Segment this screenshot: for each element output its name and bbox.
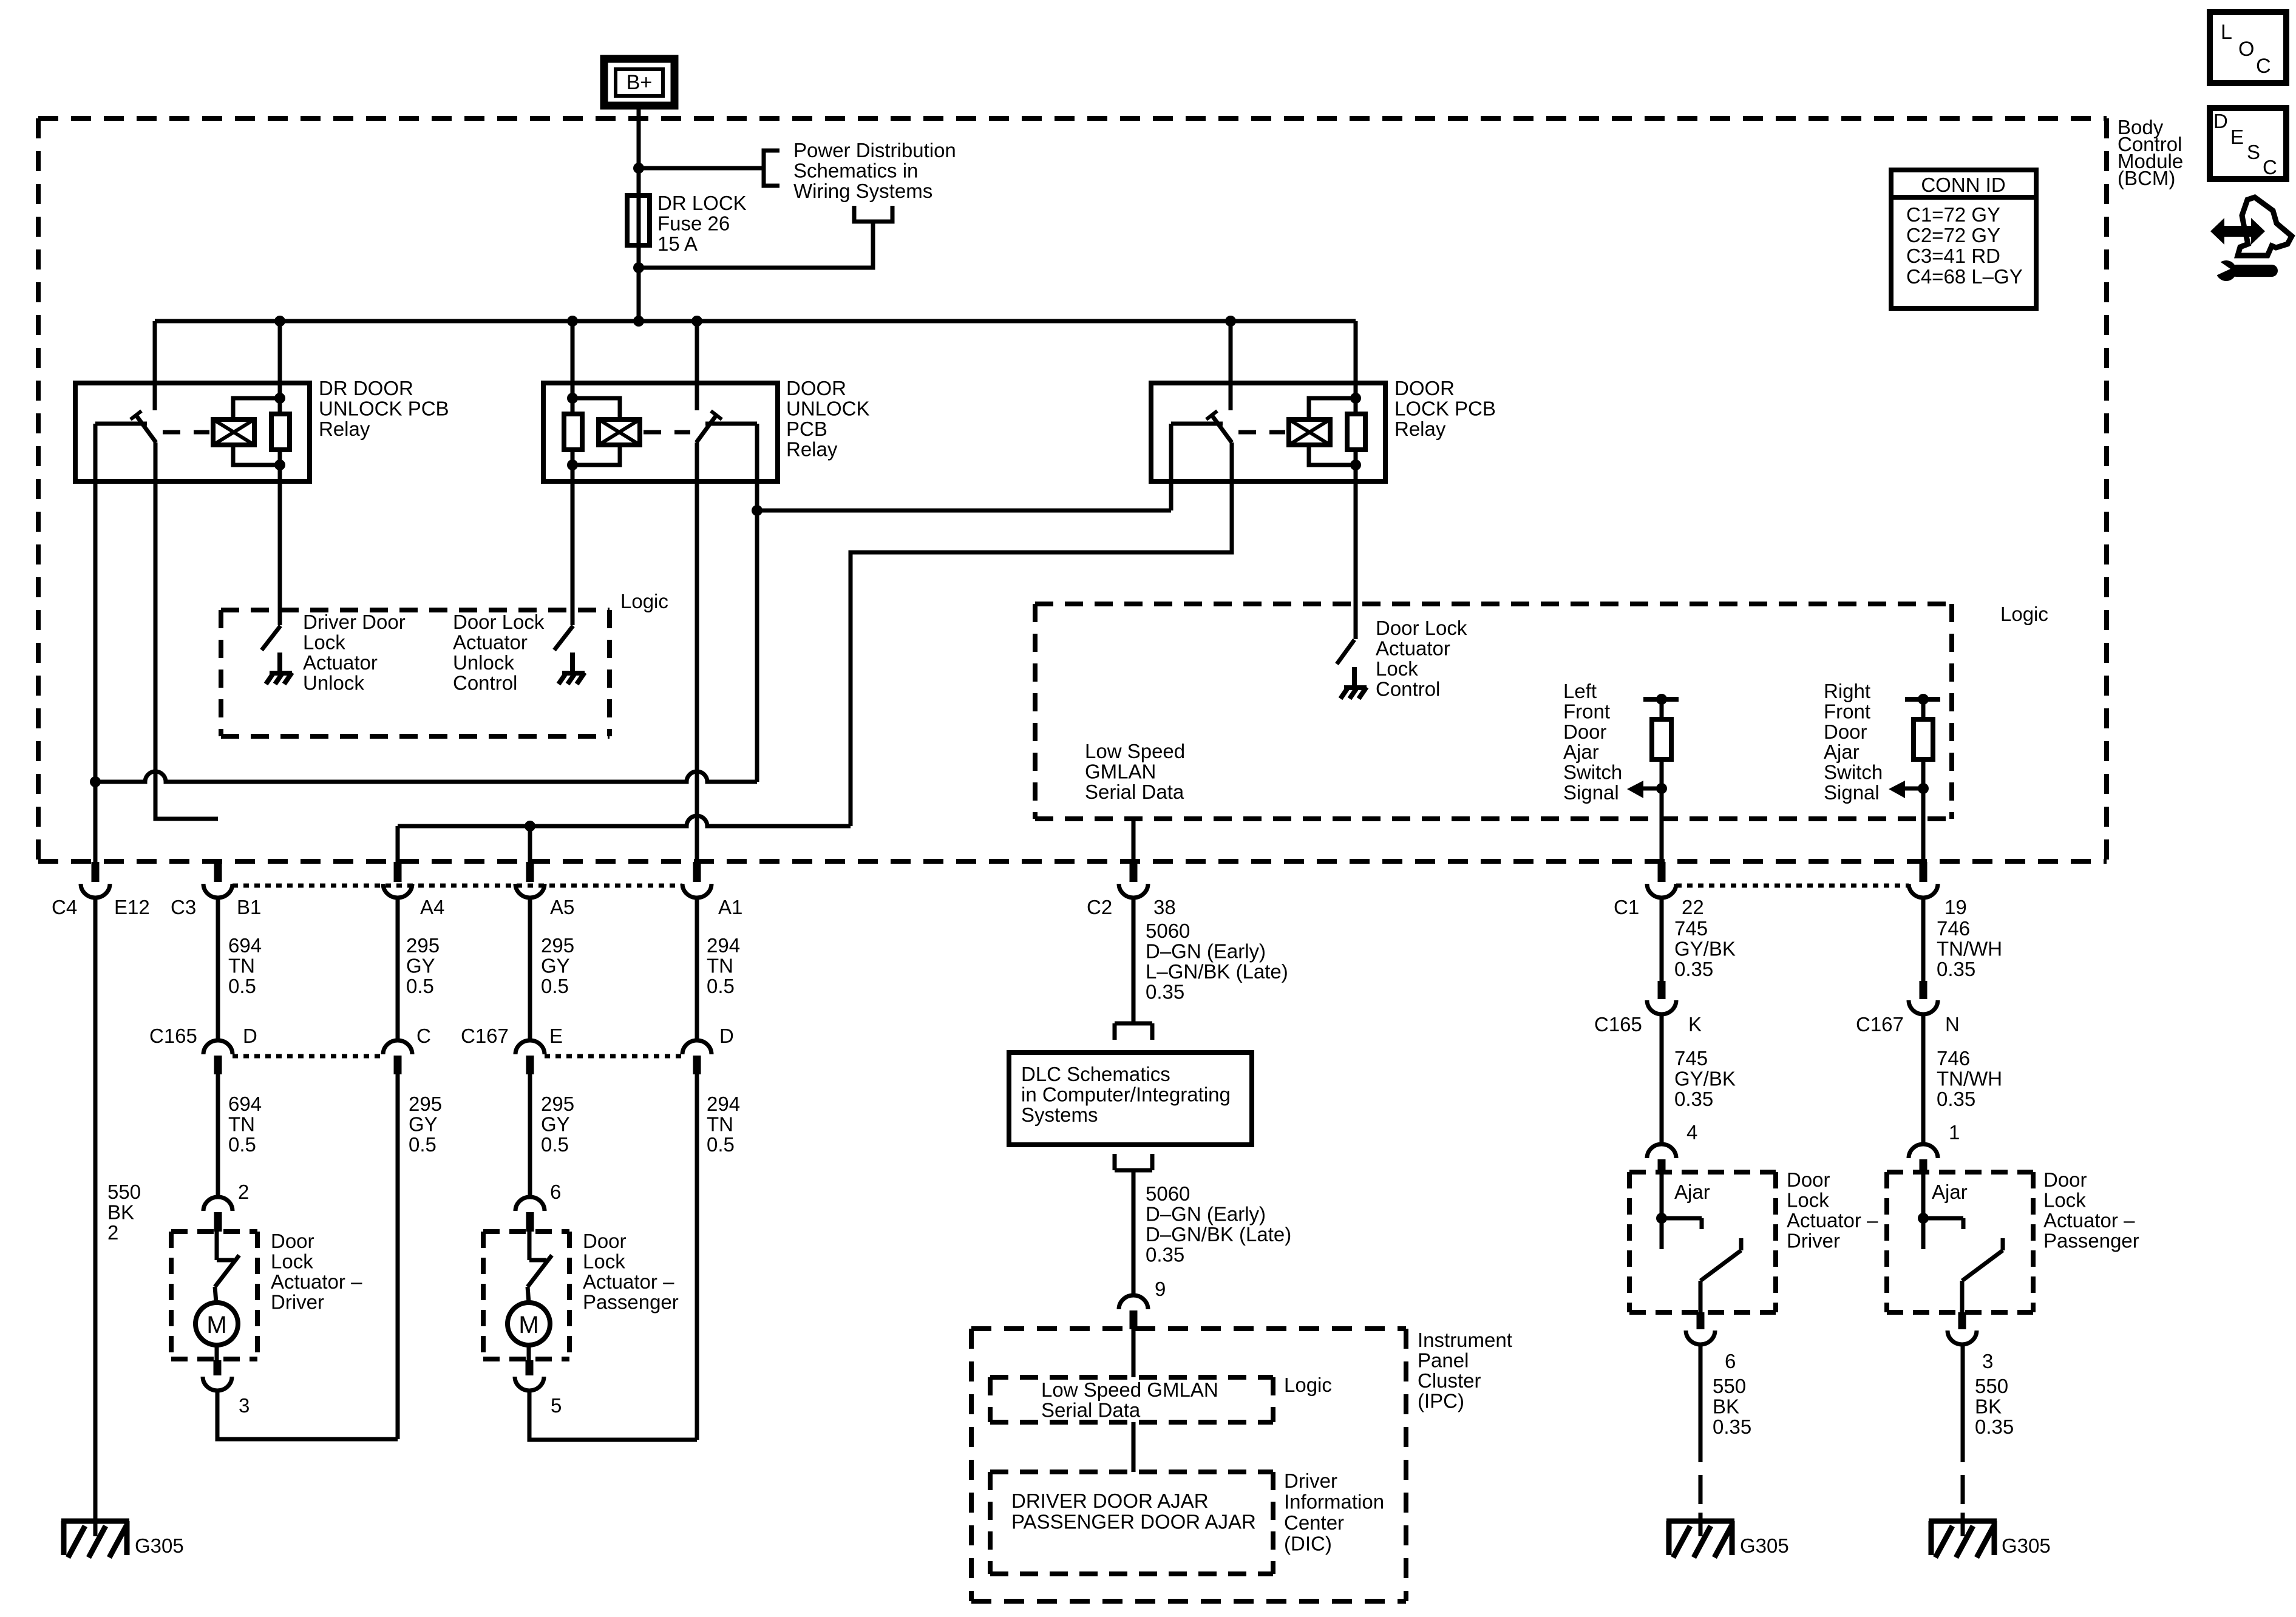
- svg-text:UNLOCK PCB: UNLOCK PCB: [319, 398, 449, 420]
- wire motor to pin5: [527, 1345, 531, 1360]
- svg-text:PASSENGER DOOR AJAR: PASSENGER DOOR AJAR: [1011, 1511, 1256, 1533]
- wire relay3 switch contact: [1171, 422, 1223, 426]
- svg-text:Center: Center: [1284, 1511, 1344, 1534]
- ground G305 passenger ajar: [1929, 1519, 1997, 1524]
- svg-text:38: 38: [1153, 896, 1176, 918]
- relay K2 DOOR UNLOCK PCB box: [543, 383, 778, 481]
- svg-text:5060: 5060: [1146, 920, 1190, 942]
- svg-text:Logic: Logic: [2000, 603, 2048, 625]
- wire pin9 into IPC logic: [1132, 1329, 1136, 1377]
- wire relay3 resistor down to logic: [1354, 450, 1358, 639]
- svg-text:Passenger: Passenger: [2043, 1230, 2139, 1252]
- relay K1 switch arm: [136, 415, 156, 442]
- svg-text:6: 6: [550, 1181, 561, 1203]
- svg-text:Relay: Relay: [786, 438, 838, 461]
- svg-text:Door Lock: Door Lock: [453, 611, 545, 633]
- svg-text:Serial Data: Serial Data: [1041, 1399, 1141, 1422]
- node relay1 coil top junction: [274, 393, 285, 404]
- svg-text:Actuator –: Actuator –: [2043, 1209, 2135, 1232]
- wire C165-K to ajar pin 4: [1660, 1015, 1664, 1145]
- svg-text:C: C: [416, 1025, 431, 1047]
- wire relay3 coil top link: [1309, 398, 1356, 419]
- svg-text:N: N: [1945, 1013, 1960, 1036]
- svg-text:Logic: Logic: [1284, 1374, 1332, 1396]
- svg-text:Door: Door: [1824, 720, 1867, 743]
- wire C4 to G305: [93, 897, 98, 1536]
- svg-text:Information: Information: [1284, 1491, 1384, 1513]
- wire bus to relay3 resistor: [1354, 321, 1358, 414]
- svg-text:Door: Door: [271, 1230, 314, 1252]
- node bus junction relay2 switch: [691, 316, 702, 327]
- wire relay1 switch contact: [95, 422, 147, 426]
- door lock actuator driver (ajar) dashed box: [1629, 1170, 1776, 1175]
- svg-text:DR DOOR: DR DOOR: [319, 377, 413, 399]
- svg-text:TN: TN: [707, 1113, 733, 1136]
- BCM enclosure dashed border left: [36, 118, 41, 861]
- svg-text:Actuator –: Actuator –: [271, 1270, 362, 1293]
- svg-text:S: S: [2247, 141, 2260, 163]
- svg-text:295: 295: [541, 1093, 574, 1115]
- svg-text:Actuator –: Actuator –: [583, 1270, 674, 1293]
- DLC schematics reference box: [1009, 1053, 1252, 1145]
- svg-text:3: 3: [239, 1394, 250, 1417]
- wire B1 to C165-D: [216, 897, 220, 1041]
- dashed mechanical link relay2: [644, 430, 690, 435]
- wire relay3 contact up-feed from relay2: [1169, 424, 1173, 510]
- node right ajar signal junction: [1918, 783, 1929, 794]
- node relay3 coil bottom junction: [1350, 459, 1361, 470]
- wire actuator feed relay2 to relay3: [757, 509, 1171, 513]
- wire bus to relay3 switch: [1229, 321, 1233, 410]
- svg-text:694: 694: [228, 934, 262, 957]
- svg-text:B1: B1: [237, 896, 261, 918]
- connector ajar driver pin 6: [1697, 1312, 1705, 1329]
- svg-text:O: O: [2238, 38, 2254, 61]
- svg-text:0.35: 0.35: [1146, 981, 1184, 1003]
- wire C167-E to actuator pin6: [528, 1074, 532, 1198]
- svg-text:Control: Control: [453, 672, 517, 694]
- door lock actuator passenger dashed box: [483, 1229, 569, 1234]
- node relay2 actuator-feed junction: [752, 505, 763, 516]
- svg-text:in Computer/Integrating: in Computer/Integrating: [1021, 1083, 1231, 1106]
- resistor left front door ajar pull-up: [1643, 697, 1679, 702]
- svg-text:GY: GY: [409, 1113, 438, 1136]
- svg-text:Right: Right: [1824, 680, 1870, 702]
- wire C167-N to ajar pin 1: [1921, 1015, 1926, 1145]
- svg-text:GY: GY: [541, 1113, 570, 1136]
- wire A4 column down to loop: [396, 1074, 400, 1439]
- svg-text:CONN ID: CONN ID: [1921, 174, 2005, 196]
- off-page bracket from DLC box: [1115, 1154, 1152, 1170]
- connector ajar passenger pin 1: [1909, 1144, 1938, 1158]
- svg-text:PCB: PCB: [786, 418, 827, 440]
- svg-text:9: 9: [1155, 1278, 1166, 1300]
- svg-text:A1: A1: [718, 896, 742, 918]
- motor M passenger actuator: [508, 1303, 550, 1345]
- svg-text:M: M: [518, 1312, 538, 1338]
- svg-text:Fuse 26: Fuse 26: [657, 212, 730, 235]
- svg-text:5: 5: [551, 1394, 562, 1417]
- node bus junction B+ feed: [633, 316, 644, 327]
- svg-text:GY/BK: GY/BK: [1674, 1068, 1736, 1090]
- svg-text:BK: BK: [107, 1201, 134, 1224]
- wire motor to pin3: [215, 1345, 219, 1360]
- svg-text:Ajar: Ajar: [1932, 1181, 1968, 1203]
- svg-text:0.5: 0.5: [541, 1133, 569, 1156]
- dashed mechanical link relay3: [1238, 430, 1285, 435]
- svg-text:746: 746: [1937, 917, 1970, 940]
- svg-text:B+: B+: [627, 71, 653, 94]
- svg-text:Signal: Signal: [1824, 781, 1880, 804]
- svg-text:C165: C165: [1594, 1013, 1642, 1036]
- wire B+ distribution bus: [155, 319, 1356, 324]
- svg-text:DRIVER DOOR AJAR: DRIVER DOOR AJAR: [1011, 1490, 1209, 1512]
- svg-text:Door: Door: [1563, 720, 1607, 743]
- motor M driver actuator: [195, 1303, 238, 1345]
- relay K3 resistor: [1347, 414, 1365, 450]
- svg-text:E: E: [549, 1025, 563, 1047]
- svg-text:0.35: 0.35: [1674, 1088, 1713, 1110]
- svg-text:Ajar: Ajar: [1674, 1181, 1710, 1203]
- icon connector outline (mitt): [2238, 197, 2292, 256]
- wire bus to relay2 switch: [695, 321, 699, 410]
- connector IPC pin 9: [1119, 1295, 1148, 1309]
- ground (logic) lock control: [1352, 667, 1357, 688]
- ajar switch passenger: [1921, 1172, 1926, 1249]
- wire driver actuator return loop: [217, 1390, 398, 1439]
- svg-text:DR LOCK: DR LOCK: [657, 192, 747, 214]
- svg-text:550: 550: [1975, 1375, 2008, 1397]
- wire relay1 contact down (to C4): [93, 424, 98, 862]
- svg-text:Lock: Lock: [1787, 1189, 1829, 1212]
- connector actuator passenger pin 5: [526, 1360, 534, 1375]
- wire bus to relay1 resistor: [278, 321, 282, 414]
- wire A1 to C167-D: [695, 897, 699, 1041]
- svg-text:0.5: 0.5: [228, 975, 256, 997]
- svg-text:D–GN/BK (Late): D–GN/BK (Late): [1146, 1223, 1291, 1246]
- svg-text:Lock: Lock: [2043, 1189, 2086, 1212]
- svg-text:0.35: 0.35: [1975, 1415, 2014, 1438]
- icon DESC box: [2210, 108, 2286, 179]
- svg-text:Signal: Signal: [1563, 781, 1619, 804]
- wire line-A relay2 feed to C4 node (hops over crossings): [95, 771, 757, 782]
- svg-text:Unlock: Unlock: [453, 651, 514, 674]
- svg-text:Control: Control: [1376, 678, 1440, 700]
- svg-text:Power Distribution: Power Distribution: [793, 139, 956, 161]
- svg-text:0.5: 0.5: [707, 1133, 735, 1156]
- off-page bracket to DLC schematics: [1115, 1023, 1152, 1040]
- BCM right Logic dashed box: [1035, 602, 1952, 606]
- svg-text:TN: TN: [228, 955, 255, 977]
- svg-text:0.35: 0.35: [1713, 1415, 1751, 1438]
- svg-text:C165: C165: [149, 1025, 197, 1047]
- svg-text:295: 295: [406, 934, 440, 957]
- wire relay2 contact down to line A: [755, 424, 759, 782]
- wire C165-D to actuator pin2: [216, 1074, 220, 1198]
- svg-text:Actuator: Actuator: [303, 651, 378, 674]
- dotted connector line C167 E-D: [545, 1054, 682, 1059]
- IPC dashed enclosure: [971, 1326, 1406, 1331]
- relay K3 switch arm: [1212, 415, 1232, 442]
- svg-text:Actuator: Actuator: [1376, 637, 1450, 660]
- svg-text:G305: G305: [2002, 1534, 2051, 1557]
- connector actuator passenger pin 6: [515, 1197, 545, 1211]
- wire GMLAN from logic to C2: [1132, 819, 1136, 862]
- svg-text:Low Speed GMLAN: Low Speed GMLAN: [1041, 1378, 1218, 1401]
- svg-text:2: 2: [238, 1181, 249, 1203]
- svg-text:D: D: [2213, 110, 2228, 132]
- svg-text:Passenger: Passenger: [583, 1291, 679, 1314]
- svg-text:Lock: Lock: [583, 1250, 625, 1273]
- svg-text:0.35: 0.35: [1937, 958, 1975, 980]
- svg-text:TN/WH: TN/WH: [1937, 1068, 2002, 1090]
- svg-text:294: 294: [707, 1093, 740, 1115]
- wire relay2 coil bottom link: [572, 445, 620, 465]
- svg-text:Left: Left: [1563, 680, 1597, 702]
- svg-text:0.5: 0.5: [228, 1133, 256, 1156]
- svg-text:Logic: Logic: [620, 590, 668, 612]
- svg-text:1: 1: [1949, 1121, 1960, 1144]
- wire from Wiring Systems bracket to fuse output node: [639, 222, 873, 268]
- svg-text:C1: C1: [1614, 896, 1639, 918]
- door lock actuator driver dashed box: [171, 1229, 257, 1234]
- resistor right front door ajar pull-up: [1905, 697, 1940, 702]
- wire C2 to DLC bracket: [1132, 897, 1136, 1023]
- svg-text:Relay: Relay: [1394, 418, 1446, 440]
- svg-text:746: 746: [1937, 1047, 1970, 1070]
- fuse DR LOCK Fuse 26 15A: [627, 195, 650, 245]
- DIC dashed box: [990, 1470, 1273, 1474]
- connector C1 at BCM: [1658, 862, 1666, 882]
- svg-text:Lock: Lock: [303, 631, 345, 654]
- svg-text:GY/BK: GY/BK: [1674, 938, 1736, 960]
- wire B+ down to fuse and bus: [637, 106, 641, 321]
- relay K3 coil: [1289, 419, 1330, 445]
- dotted connector line B1-A1: [233, 884, 682, 888]
- svg-text:DOOR: DOOR: [1394, 377, 1455, 399]
- svg-text:C4: C4: [52, 896, 77, 918]
- svg-text:C: C: [2256, 55, 2271, 78]
- svg-text:A5: A5: [550, 896, 574, 918]
- svg-text:C2: C2: [1087, 896, 1112, 918]
- node left ajar signal junction: [1656, 783, 1667, 794]
- svg-text:LOCK PCB: LOCK PCB: [1394, 398, 1496, 420]
- svg-text:GY: GY: [406, 955, 435, 977]
- svg-text:3: 3: [1982, 1350, 1993, 1372]
- ground G305 driver ajar: [1666, 1519, 1734, 1524]
- svg-text:G305: G305: [1740, 1534, 1789, 1557]
- wire relay1 switch down (to B1 jog): [155, 442, 218, 819]
- svg-text:G305: G305: [135, 1534, 184, 1557]
- ground G305 left: [61, 1519, 129, 1524]
- wire relay2 coil top link: [572, 398, 620, 419]
- svg-text:0.5: 0.5: [409, 1133, 436, 1156]
- svg-text:D–GN (Early): D–GN (Early): [1146, 1203, 1266, 1225]
- node relay3 coil top junction: [1350, 393, 1361, 404]
- node bus junction relay2 resistor: [567, 316, 578, 327]
- wire branch to power distribution reference: [639, 166, 764, 171]
- svg-text:22: 22: [1682, 896, 1704, 918]
- svg-text:6: 6: [1725, 1350, 1736, 1372]
- svg-text:GY: GY: [541, 955, 570, 977]
- connector C165 pin K: [1658, 981, 1666, 999]
- svg-text:D: D: [243, 1025, 257, 1047]
- svg-text:Switch: Switch: [1563, 761, 1622, 784]
- connector ajar passenger pin 3: [1958, 1312, 1966, 1329]
- svg-text:Door: Door: [2043, 1168, 2087, 1191]
- svg-text:550: 550: [1713, 1375, 1746, 1397]
- signal arrow right front door ajar: [1903, 787, 1923, 791]
- connector C167 pin N: [1920, 981, 1927, 999]
- svg-text:295: 295: [541, 934, 574, 957]
- connector C4 at BCM: [92, 862, 100, 882]
- connector C165 pin C: [383, 1040, 412, 1054]
- wire relay3 switch down and left: [851, 442, 1232, 826]
- svg-text:C3: C3: [171, 896, 196, 918]
- svg-text:BK: BK: [1713, 1395, 1739, 1418]
- svg-text:K: K: [1688, 1013, 1702, 1036]
- IPC logic dashed box: [990, 1375, 1273, 1380]
- off-page bracket return from Wiring Systems: [854, 206, 892, 222]
- svg-text:Front: Front: [1563, 700, 1610, 722]
- power symbol B+ battery feed: [604, 59, 674, 106]
- connector ajar driver pin 4: [1647, 1144, 1676, 1158]
- wire relay2 resistor down to logic: [571, 450, 575, 625]
- switch inside passenger actuator: [528, 1232, 532, 1260]
- svg-text:DOOR: DOOR: [786, 377, 846, 399]
- svg-text:0.35: 0.35: [1674, 958, 1713, 980]
- BCM enclosure dashed border right: [2104, 118, 2109, 861]
- node line-A junction at C4 wire: [90, 776, 101, 787]
- svg-text:C1=72 GY: C1=72 GY: [1906, 203, 2000, 226]
- svg-text:GMLAN: GMLAN: [1085, 761, 1156, 783]
- svg-text:UNLOCK: UNLOCK: [786, 398, 870, 420]
- wire relay1 coil bottom link: [233, 445, 280, 465]
- table CONN ID box: [1891, 170, 2036, 308]
- wire relay3 coil bottom link: [1309, 445, 1356, 465]
- wire A5 to C167-E: [528, 897, 532, 1041]
- wire A5 drop from line-B: [528, 826, 532, 862]
- svg-text:Lock: Lock: [1376, 657, 1418, 680]
- svg-text:D–GN (Early): D–GN (Early): [1146, 940, 1266, 963]
- wire relay1 coil top link: [233, 398, 280, 419]
- wire bus to relay2 resistor: [571, 321, 575, 414]
- svg-text:4: 4: [1686, 1121, 1697, 1144]
- connector A5 at BCM: [526, 862, 534, 882]
- svg-text:0.5: 0.5: [707, 975, 735, 997]
- svg-text:19: 19: [1944, 896, 1967, 918]
- svg-text:Ajar: Ajar: [1563, 741, 1599, 763]
- node junction fuse output: [633, 262, 644, 273]
- svg-text:745: 745: [1674, 1047, 1708, 1070]
- svg-text:C167: C167: [1856, 1013, 1904, 1036]
- node relay2 coil bottom junction: [567, 459, 578, 470]
- wire DLC to IPC pin 9: [1132, 1170, 1136, 1296]
- relay K1 resistor: [271, 414, 290, 450]
- relay K2 coil: [599, 419, 640, 445]
- node line-B junction A5: [525, 821, 535, 832]
- svg-text:Driver Door: Driver Door: [303, 611, 406, 633]
- svg-text:Serial Data: Serial Data: [1085, 781, 1184, 803]
- dashed mechanical link relay1: [163, 430, 209, 435]
- svg-text:15 A: 15 A: [657, 232, 698, 255]
- wire relay1 resistor down to logic: [278, 450, 282, 625]
- relay K1 DR DOOR UNLOCK PCB box: [75, 383, 310, 481]
- wire ajar passenger to ground: [1961, 1344, 1965, 1462]
- svg-text:E: E: [2230, 126, 2244, 148]
- connector C2 at BCM: [1130, 862, 1138, 882]
- svg-text:TN: TN: [228, 1113, 255, 1136]
- svg-text:0.35: 0.35: [1146, 1244, 1184, 1266]
- wire IPC logic to DIC box: [1132, 1422, 1136, 1472]
- connector A4 at BCM: [394, 862, 402, 882]
- BCM enclosure dashed border bottom: [38, 859, 2107, 864]
- door lock actuator passenger (ajar) dashed box: [1887, 1170, 2033, 1175]
- relay K1 coil: [213, 419, 254, 445]
- connector C167 pin D: [682, 1040, 712, 1054]
- wire 19 to C167-N: [1921, 897, 1926, 981]
- svg-text:L: L: [2221, 21, 2232, 44]
- svg-text:Driver: Driver: [1284, 1470, 1337, 1492]
- connector 19pin at BCM: [1920, 862, 1927, 882]
- svg-text:Driver: Driver: [271, 1291, 324, 1314]
- svg-text:Door: Door: [583, 1230, 627, 1252]
- connector C167 pin E: [515, 1040, 545, 1054]
- relay K2 switch arm: [696, 415, 716, 442]
- svg-text:M: M: [206, 1312, 226, 1338]
- relay K3 DOOR LOCK PCB box: [1151, 383, 1385, 481]
- svg-text:Relay: Relay: [319, 418, 370, 440]
- ajar switch driver: [1660, 1172, 1664, 1249]
- off-page bracket to Power Distribution schematic: [764, 151, 779, 186]
- svg-text:Unlock: Unlock: [303, 672, 364, 694]
- svg-text:0.5: 0.5: [541, 975, 569, 997]
- svg-text:Actuator: Actuator: [453, 631, 528, 654]
- ground (logic) unlock control: [570, 653, 575, 673]
- svg-text:TN/WH: TN/WH: [1937, 938, 2002, 960]
- svg-text:Wiring Systems: Wiring Systems: [793, 180, 932, 202]
- svg-text:Schematics in: Schematics in: [793, 160, 918, 182]
- svg-text:550: 550: [107, 1181, 141, 1203]
- wire A1 column down to loop: [695, 1074, 699, 1440]
- connector A1 at BCM: [693, 862, 701, 882]
- wire bus to relay1 switch: [153, 321, 157, 410]
- switch Driver Door Lock Actuator Unlock: [262, 626, 280, 650]
- svg-text:(DIC): (DIC): [1284, 1533, 1332, 1555]
- wire relay2 switch contact: [705, 422, 757, 426]
- switch Door Lock Actuator Unlock Control: [554, 626, 573, 650]
- svg-text:Door: Door: [1787, 1168, 1830, 1191]
- connector C165 pin D: [203, 1040, 233, 1054]
- svg-text:Ajar: Ajar: [1824, 741, 1860, 763]
- icon LOC box: [2210, 12, 2286, 83]
- wire passenger actuator return loop: [529, 1390, 697, 1440]
- signal arrow left front door ajar: [1642, 787, 1662, 791]
- node bus junction relay3 switch: [1225, 316, 1236, 327]
- svg-text:TN: TN: [707, 955, 733, 977]
- wire A4 drop from line-B: [396, 826, 400, 862]
- node bus junction relay1 resistor: [274, 316, 285, 327]
- svg-text:Front: Front: [1824, 700, 1870, 722]
- svg-text:694: 694: [228, 1093, 262, 1115]
- svg-text:745: 745: [1674, 917, 1708, 940]
- svg-text:D: D: [719, 1025, 734, 1047]
- svg-text:Low Speed: Low Speed: [1085, 740, 1185, 762]
- svg-text:Driver: Driver: [1787, 1230, 1840, 1252]
- svg-text:Panel: Panel: [1418, 1349, 1469, 1372]
- svg-text:0.5: 0.5: [406, 975, 434, 997]
- ground (logic) driver unlock: [277, 653, 282, 673]
